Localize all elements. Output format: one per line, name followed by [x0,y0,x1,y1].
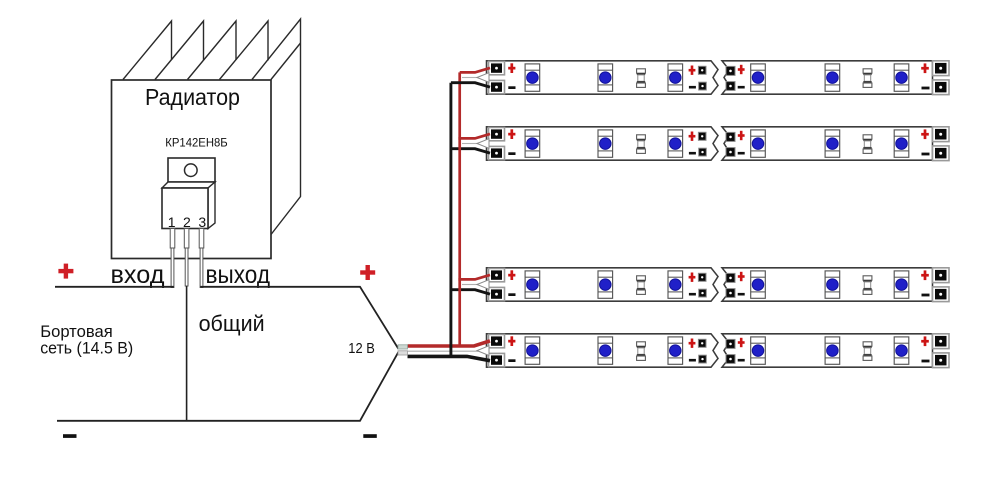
regulator U1 tab [168,158,215,182]
wire crimp upper [398,345,408,349]
connector notch row 3 [477,280,489,290]
pin 2 leg [184,229,189,287]
svg-text:12 В: 12 В [348,341,375,357]
LED strip row 2 [487,127,950,161]
heatsink fin 1 [123,21,172,80]
regulator U1 body front face [162,188,208,229]
svg-text:общий: общий [199,311,265,336]
plus sign output right [360,265,375,280]
wire stub red row 1 [460,68,490,73]
LED strip row 4 [487,334,950,368]
svg-text:2: 2 [183,214,191,230]
wire stub black row 2 [450,149,491,153]
wire core grey row 1 [462,77,478,79]
wire core grey row 2 [462,143,478,145]
heatsink fin 5 and back panel [252,19,301,235]
wire output top right with diagonal [200,287,398,349]
regulator U1 mounting hole [185,164,198,177]
wire 12V red thick [408,341,491,346]
svg-text:сеть (14.5 В): сеть (14.5 В) [40,339,133,358]
wire bottom common with diagonal [57,352,399,421]
LED strip row 1 [487,61,950,95]
wire stub red row 2 [458,134,490,139]
regulator U1 body right face [208,182,215,229]
wire 12V grey core [408,350,479,352]
svg-text:вход: вход [111,261,165,289]
plus sign input left [58,264,73,279]
svg-text:КР142ЕН8Б: КР142ЕН8Б [165,136,228,150]
wire stub black row 1 [451,83,490,87]
wire pin2 to bottom [186,286,188,421]
connector notch row 2 [477,139,489,149]
svg-text:Радиатор: Радиатор [145,84,240,110]
svg-text:выход: выход [206,261,271,289]
heatsink fin 4 [220,21,269,80]
heatsink fin 3 [188,21,237,80]
heatsink box Радиатор [112,80,272,259]
regulator U1 body top face [162,182,215,188]
svg-text:1: 1 [168,214,176,230]
wire stub red row 3 [458,275,490,280]
wire stub black row 3 [450,290,491,294]
minus sign bottom right [363,434,377,438]
wire 12V black thick [408,356,491,360]
minus sign bottom left [63,434,77,438]
wire crimp lower [398,351,408,355]
bus black vertical [449,83,452,357]
wire core grey row 3 [462,284,478,286]
pin 1 leg [170,229,175,288]
pin 3 leg [199,229,204,288]
LED strip row 3 [487,268,950,302]
connector notch row 4 [477,346,489,356]
wire input top left [55,286,174,288]
svg-text:3: 3 [198,214,206,230]
bus red vertical [458,72,461,346]
heatsink fin 2 [155,21,204,80]
connector notch row 1 [477,73,489,83]
